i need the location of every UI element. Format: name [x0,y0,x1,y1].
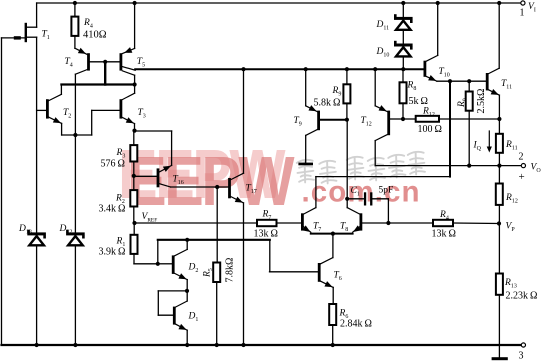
node junction D12 bottom rail [73,343,77,347]
node junction R9 bottom / T9 base / T8 collector [345,118,349,122]
wire x450 vertical (to T12 collector line) [449,81,451,176]
svg-text:3: 3 [519,351,524,361]
svg-text:2.23k Ω: 2.23k Ω [506,291,538,302]
svg-text:13k Ω: 13k Ω [254,229,278,240]
transistor T10 (NPN) [424,3,438,84]
watermark chinese characters (decorative) [297,151,426,183]
node junction D1 bottom rail [185,343,189,347]
wire thick bias line (D2 node to T6 base) [158,239,270,241]
wire diff emitters to T6 collector [332,234,334,258]
node junction top rail / R4 [73,1,77,5]
wire T16 to T17 base / R5 line [171,186,229,188]
resistor R3 576 [133,131,135,146]
svg-text:1: 1 [520,8,525,19]
resistor R8 5k [402,69,404,82]
node junction T5 emitter / top rail [133,1,137,5]
node junction x75.4 y135 [73,133,77,137]
transistor T12 (PNP) [375,69,403,165]
zener diode D12 [66,230,85,246]
svg-text:5k Ω: 5k Ω [409,96,428,107]
svg-text:7.8kΩ: 7.8kΩ [225,258,236,283]
terminal 1 V_I [521,1,525,5]
svg-text:2.5kΩ: 2.5kΩ [476,89,487,114]
capacitor C1 5pF [347,198,364,200]
node junction R0 bottom / V_O line [467,164,471,168]
terminal 2 V_O [521,164,525,168]
transistor T9 (PNP) [306,69,347,162]
svg-text:2.84k Ω: 2.84k Ω [340,319,372,330]
node junction x450 [448,79,452,83]
node junction T12 emitter feed [373,67,377,71]
resistor R9 5.8k [346,69,348,84]
node junction D10 / rail / R8 [401,67,405,71]
zener diode D10 [402,30,404,44]
node junction T10 collector / top rail [436,1,440,5]
wire V_REF line [135,222,258,224]
transistor T17 (NPN) [228,69,244,345]
svg-text:5pF: 5pF [379,186,394,196]
wire second rail (T5 collector to T10 base) [135,68,423,70]
node junction R1 / D2 base [156,262,160,266]
wire T4-T5 base line [90,61,120,63]
resistor R4 410 [74,3,76,17]
node junction R11 bottom / V_O line [497,164,501,168]
node junction V_REF [132,221,136,225]
resistor R10 2.5k [468,81,470,91]
diode-connected transistor D1 [173,291,188,345]
node junction collectors [133,82,137,86]
wire base-to-collector stub [104,62,106,85]
wire T8 base line [362,222,433,224]
wire y176.6 line (T7 collector to x450) [316,176,450,178]
svg-text:+: + [519,171,525,183]
wire T2 emitter to T3 base [62,134,92,136]
zener diode D13 [27,230,46,246]
ground bar (T9 collector) [298,163,313,166]
node junction diff pair emitters [331,232,335,236]
svg-text:3.9k Ω: 3.9k Ω [99,247,126,258]
node junction T17 emitter / bottom rail [241,343,245,347]
transistor T2 (NPN) [37,85,63,136]
resistor R4 13k (feedback) [433,220,453,226]
zener diode D11 [402,3,404,17]
transistor T1 (JFET) [2,3,37,42]
node junction D11 top rail [401,1,405,5]
svg-text:13k Ω: 13k Ω [432,229,456,240]
wire T6 base loop [269,240,271,272]
resistor R6 2.84k [329,304,336,325]
node junction T3 emitter / R3 / T16 loop [132,129,136,133]
node junction R8 / T12 base / R12 [401,117,405,121]
wire x75.4 vertical (T4 collector / D12) [74,135,76,232]
transistor T6 (NPN) [270,258,334,304]
wire left edge vertical (T1 gate to bottom rail) [1,38,3,345]
wire top rail V1 (+) line [37,2,522,4]
wire D1 base loop [158,290,187,292]
current arrow I_Q [488,131,490,149]
resistor R12 (output divider top) [498,166,500,184]
watermark EEPW logo (decorative) [118,134,421,220]
node junction T11 emitter / R12 / R11 [497,117,501,121]
svg-text:2: 2 [519,152,524,163]
svg-text:410Ω: 410Ω [83,30,107,41]
node junction R5 tap [215,185,219,189]
resistor R7 13k [257,220,277,226]
diode-connected transistor D2 [172,240,188,291]
node junction D2 emitter / D1 [185,289,189,293]
terminal 3 [521,343,525,347]
node junction D13 bottom rail [35,343,39,347]
node junction D2 collector [185,238,189,242]
node junction R3/R2/T16 base [132,174,136,178]
svg-text:5.8k Ω: 5.8k Ω [314,98,341,109]
resistor R11 [498,119,500,134]
node junction T9 emitter feed [304,67,308,71]
node junction x469 [467,79,471,83]
node junction R5 bottom rail [215,343,219,347]
node junction V_P [497,221,501,225]
transistor T4 (PNP) [75,48,90,135]
wire bottom ground rail [2,344,522,346]
svg-text:EEPW: EEPW [127,141,295,220]
wire V_O output line [375,165,521,167]
node junction R9 top / rail [345,67,349,71]
wire emitter bar [311,233,353,235]
transistor T5 (PNP) [120,3,136,85]
resistor R5 7.8k [216,187,218,263]
resistor R1 3.9k [133,223,135,235]
node junction C1 left / T8 collector [345,197,349,201]
node junction base line [103,60,107,64]
node junction R6 bottom rail [331,343,335,347]
resistor R2 3.4k [133,176,135,190]
wire x36.6 vertical (T1 source / T2 base / D13) [36,37,38,232]
wire T10 emitter to T11 base [437,80,486,82]
transistor T16 (NPN, emitter up) [134,131,173,187]
svg-text:.com.cn: .com.cn [302,176,421,209]
resistor R13 2.23k [498,224,500,274]
svg-text:100 Ω: 100 Ω [418,124,442,135]
resistor R12 100 [403,118,416,120]
wire D2 base stub [157,240,159,264]
node junction T17 collector / rail [241,67,245,71]
transistor T8 (NPN mirrored) [347,120,362,235]
ground symbol (output) [492,357,508,360]
transistor T3 (NPN) [120,85,136,131]
wire thick node line y84.5 [61,83,134,85]
svg-text:3.4k Ω: 3.4k Ω [99,204,126,215]
svg-text:576 Ω: 576 Ω [101,159,125,170]
transistor T11 (NPN) [486,3,500,119]
transistor T7 (NPN) [301,177,316,235]
node junction C1 right [386,221,390,225]
node junction T11 collector / top rail [497,1,501,5]
